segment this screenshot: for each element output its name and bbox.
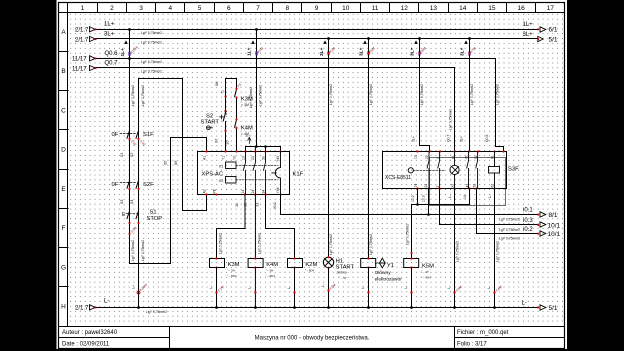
terminal dot [367, 291, 369, 293]
solenoid valve coil Y1 [361, 259, 376, 268]
svg-text:5/1: 5/1 [549, 37, 558, 44]
S2F linkage dashed [120, 182, 136, 184]
XCS actuator key symbol [408, 168, 413, 173]
wire 3L+ drop to H1 lamp [328, 39, 330, 257]
svg-text:3L+: 3L+ [523, 32, 534, 38]
svg-text:S1F: S1F [143, 132, 154, 138]
terminal dot [453, 291, 455, 293]
XCS coil element 61-62 [494, 152, 496, 189]
terminal dot [410, 291, 412, 293]
svg-text:A: A [61, 29, 66, 36]
svg-text:LgY 0,75mm2: LgY 0,75mm2 [405, 224, 409, 245]
svg-text:2: 2 [110, 5, 114, 12]
svg-text:⌜– 3D4: ⌜– 3D4 [421, 276, 431, 280]
wire rail 3L+ [94, 38, 537, 40]
auxiliary contact K4M [241, 126, 253, 136]
svg-text:4: 4 [168, 5, 172, 12]
wire rail L- bottom [94, 307, 537, 309]
folio reference arrow 11/13 to rail Q0.7 [72, 65, 97, 72]
svg-text:2/1.7: 2/1.7 [75, 37, 89, 43]
svg-text:H: H [61, 304, 66, 311]
svg-text:14: 14 [414, 184, 418, 188]
junction on L- [453, 306, 456, 309]
svg-text:L-: L- [488, 195, 492, 198]
K4M leg terminal dots [235, 118, 237, 120]
safety switch S3F gray enclosure [430, 158, 506, 206]
svg-text:LgY 0,75mm2: LgY 0,75mm2 [249, 87, 253, 108]
svg-text:14: 14 [241, 190, 245, 194]
svg-text:Folio : 3/17: Folio : 3/17 [457, 341, 487, 347]
svg-text:1L+: 1L+ [523, 22, 534, 28]
Y1 valve symbol [380, 258, 386, 268]
svg-text:LgY 0,75mm2: LgY 0,75mm2 [141, 240, 145, 261]
svg-text:i0.1: i0.1 [523, 208, 533, 214]
wire K3M coil to L- [216, 268, 218, 308]
svg-text:⌽ 3M: ⌽ 3M [241, 103, 249, 107]
folio reference arrow 2/1.7 to rail L- [75, 305, 97, 312]
svg-text:62: 62 [491, 184, 495, 188]
auxiliary contact K3M [241, 97, 253, 107]
junction on L- [254, 306, 257, 309]
terminal dot [215, 291, 217, 293]
XCS bottom pin dots [416, 187, 495, 189]
terminal blue markers [128, 51, 470, 56]
svg-text:02: 02 [129, 152, 134, 157]
folio reference arrow 11/13 to rail Q0.6 [72, 56, 97, 63]
junction on 3L+ [418, 37, 421, 40]
potential arrow 1L+ near bus [245, 134, 251, 144]
S2 actuator link dashed [220, 115, 224, 119]
wire S2 leg [223, 79, 225, 152]
svg-text:61: 61 [491, 155, 495, 159]
svg-text:A1: A1 [203, 156, 207, 160]
contactor coil K4M [248, 259, 263, 268]
wire V1 from 1L+ down left branch [130, 30, 207, 264]
Y1 note Glowny elektrozawor [375, 270, 403, 282]
svg-text:LgY 0,75mm2: LgY 0,75mm2 [141, 85, 145, 106]
svg-text:07: 07 [213, 138, 218, 143]
folio reference arrow 2/1.7 to rail 3L+ [75, 36, 97, 43]
terminal dot [293, 291, 295, 293]
fuse-switch S1F pole 1 [127, 129, 130, 141]
S2F terminal dots [128, 188, 130, 190]
pushbutton S2 START actuator [201, 114, 220, 130]
XCS pin labels top rotated [414, 155, 495, 159]
terminal dot [327, 289, 329, 291]
title block [59, 327, 565, 349]
svg-text:09: 09 [223, 110, 228, 115]
terminal dot V3 [255, 52, 257, 54]
svg-text:S1: S1 [150, 210, 157, 216]
svg-text:2/1.7: 2/1.7 [75, 28, 89, 34]
svg-text:⌜– 3H: ⌜– 3H [227, 269, 235, 273]
folio reference arrow 10/1 lower [537, 231, 560, 238]
relay element K2 [226, 177, 237, 184]
XPS internal contact 23-24 [253, 152, 255, 195]
svg-text:8/1: 8/1 [549, 212, 558, 219]
svg-text:G: G [61, 264, 66, 271]
wire 3L+ drop to XCS pin 21 [420, 39, 430, 152]
wire 3L+ drop to XCS pin 41 [469, 39, 471, 152]
K4M coil terminal dots [254, 257, 256, 259]
XPS pin labels top rotated [203, 156, 281, 162]
svg-text:17: 17 [547, 5, 555, 12]
fuse-switch S2F pole 1 [127, 179, 130, 191]
svg-text:Główny: Główny [375, 270, 392, 276]
XCS contact 21-22 [438, 152, 440, 189]
svg-text:zielona: zielona [336, 270, 347, 274]
Y1 valve link dashed [375, 262, 379, 264]
svg-text:D: D [61, 147, 66, 154]
junction on i0.1 [427, 213, 430, 216]
svg-text:LgY 0,75mm2: LgY 0,75mm2 [449, 109, 453, 130]
junction on 1L+ at V3 [255, 28, 258, 31]
svg-text:⌜– 8D3: ⌜– 8D3 [227, 274, 237, 278]
folio reference arrow 5/1 from rail L- [537, 305, 558, 312]
svg-text:10.3: 10.3 [422, 195, 426, 202]
terminal dot [468, 52, 470, 54]
folio reference arrow 10/1 upper [537, 222, 560, 230]
svg-text:11/17: 11/17 [72, 66, 87, 72]
terminal dot on H1 drop [327, 52, 329, 54]
svg-text:Auteur : pawel32640: Auteur : pawel32640 [62, 330, 118, 336]
svg-text:x2: x2 [451, 184, 455, 188]
svg-text:F: F [62, 225, 66, 232]
svg-text:6: 6 [227, 5, 231, 12]
terminal dot on Y1 drop [367, 52, 369, 54]
svg-text:START: START [201, 120, 220, 126]
junction dots on bus [255, 145, 258, 148]
K3M coil terminal dots [215, 257, 217, 259]
XCS contact 41-42 [467, 152, 469, 189]
svg-text:Date : 02/09/2011: Date : 02/09/2011 [62, 341, 110, 347]
svg-text:5/1: 5/1 [549, 305, 558, 312]
svg-text:S2F: S2F [143, 182, 154, 188]
dashed link K1 to contacts [236, 164, 278, 166]
svg-text:LgY 0,75mm2: LgY 0,75mm2 [329, 84, 333, 105]
svg-text:STOP: STOP [147, 216, 163, 222]
svg-text:LgY 0,75mm2: LgY 0,75mm2 [259, 85, 263, 106]
svg-text:3: 3 [139, 5, 143, 12]
junction on 3L+ [468, 37, 471, 40]
svg-text:K2M: K2M [305, 262, 317, 268]
svg-text:6/1: 6/1 [549, 27, 558, 34]
terminal dot V1 lower [128, 233, 130, 235]
svg-text:2: 2 [436, 186, 440, 188]
K5M cross references [421, 270, 431, 280]
terminal ring on V2 bottom [137, 291, 140, 294]
wire K5M to L- [411, 268, 413, 308]
svg-text:8: 8 [285, 5, 289, 12]
svg-text:3L+: 3L+ [358, 47, 364, 56]
svg-text:10: 10 [342, 5, 350, 12]
dashed link K2 to contacts [236, 179, 278, 181]
svg-text:⌜– 3H: ⌜– 3H [266, 269, 274, 273]
wire 3L+ drop to Y1 valve [368, 39, 370, 258]
svg-text:LgY 0,75mm2: LgY 0,75mm2 [141, 60, 162, 64]
svg-text:K2: K2 [219, 179, 223, 183]
svg-text:Q0.7: Q0.7 [105, 61, 119, 67]
XPS pin labels bottom rotated [203, 187, 281, 193]
H1 cross reference [339, 276, 347, 280]
folio reference arrow 2/1.7 to rail 1L+ [75, 27, 97, 34]
page border frame [59, 3, 565, 349]
XPS top pin dots [205, 150, 281, 152]
svg-text:Y1: Y1 [221, 156, 225, 160]
H1 note zielona [336, 270, 347, 274]
svg-text:14: 14 [463, 195, 467, 199]
svg-text:3L+: 3L+ [460, 47, 466, 56]
svg-text:23: 23 [251, 156, 255, 160]
grid dots [69, 13, 565, 326]
svg-text:3L+: 3L+ [459, 136, 463, 142]
svg-text:0F: 0F [112, 182, 119, 188]
K3M cross references [227, 269, 237, 279]
junction on L- [410, 306, 413, 309]
S1 terminal dots [128, 222, 130, 224]
svg-text:⌜– 8D4: ⌜– 8D4 [305, 269, 315, 273]
junction on 3L+ at H1 drop [327, 37, 330, 40]
svg-text:i0.1: i0.1 [272, 201, 277, 208]
K2M cross reference [305, 269, 315, 273]
svg-text:12: 12 [243, 202, 248, 207]
wire start branch U top [226, 78, 237, 80]
svg-text:11/17: 11/17 [72, 57, 87, 63]
wire rail Q0.6 [94, 59, 504, 152]
svg-text:03: 03 [119, 199, 124, 204]
svg-text:Q0.6: Q0.6 [105, 51, 119, 57]
wire rail Q0.7 [94, 68, 455, 152]
svg-text:14: 14 [459, 5, 467, 12]
svg-text:34: 34 [262, 190, 266, 194]
svg-text:3L+: 3L+ [409, 47, 415, 56]
terminal dot on K5M feed [410, 252, 412, 254]
svg-text:⌽ 4M: ⌽ 4M [241, 132, 249, 136]
svg-text:LgY 0,75mm2: LgY 0,75mm2 [131, 240, 135, 261]
folio reference arrow 8/1 [537, 212, 558, 219]
wire XPS 34 to K2M coil dogleg [266, 195, 295, 259]
wire XCS 62 to L- rail [494, 189, 496, 308]
wire V2 second pole branch to XPS A2 [139, 79, 207, 308]
svg-text:LgY 0,75mm2: LgY 0,75mm2 [499, 217, 520, 221]
XCS lamp [450, 152, 459, 189]
wire H1 to L- [328, 268, 330, 308]
svg-text:7: 7 [256, 5, 260, 12]
relay element K1 [226, 162, 237, 169]
svg-text:LgY 0,75mm2: LgY 0,75mm2 [257, 233, 261, 254]
svg-text:L+: L+ [131, 284, 135, 289]
XPS internal contact 33-34 [264, 152, 266, 195]
svg-text:⌜– 4T: ⌜– 4T [421, 270, 429, 274]
svg-text:10/1: 10/1 [548, 231, 561, 238]
svg-text:K5M: K5M [422, 263, 434, 269]
svg-text:11: 11 [372, 5, 379, 12]
svg-text:K4M: K4M [266, 262, 278, 268]
wire V3 from 1L+ to XPS contact bus [246, 30, 281, 152]
XCS pin labels bottom rotated [414, 184, 495, 188]
XCS contact 13-14 [427, 152, 429, 189]
svg-text:5: 5 [198, 5, 202, 12]
folio reference arrow 5/1 from rail 3L+ [537, 36, 558, 43]
svg-text:LgY 0,75mm2: LgY 0,75mm2 [470, 84, 474, 105]
svg-text:06: 06 [173, 160, 178, 165]
svg-text:52: 52 [472, 184, 476, 188]
svg-text:LgY 0,75mm2: LgY 0,75mm2 [219, 233, 223, 254]
contactor coil K2M [288, 259, 303, 268]
S2 leg terminal dots [224, 95, 226, 97]
potential up-arrows on feeder drops [124, 40, 468, 44]
XCS top pin dots [416, 150, 504, 152]
svg-text:22: 22 [424, 184, 428, 188]
wire i0.1 from XPS Y44 to folio 8/1 [281, 195, 538, 215]
svg-text:Fichier : m_000.qet: Fichier : m_000.qet [457, 330, 509, 336]
svg-text:13: 13 [414, 155, 418, 159]
contactor coil K5M [404, 259, 419, 268]
svg-text:B: B [61, 68, 65, 75]
svg-text:L-: L- [522, 301, 527, 307]
terminal dot [418, 52, 420, 54]
svg-text:1L+: 1L+ [104, 22, 115, 28]
junction on L- [327, 306, 330, 309]
K5M coil terminal dots [410, 257, 412, 259]
svg-text:LgY 0,75mm2: LgY 0,75mm2 [131, 85, 135, 106]
svg-text:1L+: 1L+ [247, 47, 253, 56]
svg-text:3L+: 3L+ [319, 47, 325, 56]
K1F coil element in Y43-Y44 branch [272, 152, 281, 195]
safety relay XPS-AC box [198, 152, 290, 195]
svg-text:Y1: Y1 [387, 263, 394, 269]
svg-text:04: 04 [129, 199, 134, 204]
wire K4M coil to L- [254, 268, 256, 308]
svg-text:10/1: 10/1 [548, 222, 561, 229]
svg-text:XCS-E8511: XCS-E8511 [385, 175, 411, 181]
svg-text:05: 05 [163, 160, 168, 165]
svg-text:XPS-AC: XPS-AC [202, 172, 224, 178]
svg-text:K1F: K1F [293, 172, 304, 178]
fuse-switch S1F pole 2 [136, 129, 139, 141]
junction on Q0.6 at V1 [128, 57, 131, 60]
K2M coil terminal dots [293, 257, 295, 259]
folio reference arrow 6/1 from rail 1L+ [537, 27, 558, 34]
svg-text:1L+: 1L+ [120, 48, 126, 57]
junction on L- [367, 306, 370, 309]
XPS bottom pin dots [205, 193, 281, 195]
XPS internal contact 13-14 [243, 152, 245, 195]
svg-text:3L+: 3L+ [104, 31, 115, 37]
XCS contact 51-52 [476, 152, 478, 189]
svg-text:LgY 0,75mm2: LgY 0,75mm2 [420, 84, 424, 105]
S1 designator [147, 210, 163, 222]
svg-text:Y43: Y43 [276, 156, 280, 162]
indicator lamp H1 START [323, 257, 333, 267]
junction at K5M feed [416, 203, 419, 206]
emergency stop S1 contact 1 [127, 209, 130, 221]
svg-text:LgY 0,75mm2: LgY 0,75mm2 [141, 70, 162, 74]
wire K3M/K4M leg [235, 79, 237, 152]
svg-text:LgY 0,75mm2: LgY 0,75mm2 [146, 310, 167, 314]
svg-text:12: 12 [401, 5, 409, 12]
emergency stop S1 contact 2 [136, 209, 139, 221]
wire XCS pins to K5M coil [412, 189, 470, 259]
svg-text:PE: PE [213, 188, 217, 193]
svg-text:33: 33 [262, 156, 266, 160]
svg-text:E: E [122, 212, 126, 218]
terminal dot V1 above Q0.6 [128, 53, 130, 55]
K4M cross references [266, 269, 276, 279]
K3M leg terminal dots [235, 88, 237, 90]
svg-text:LgY 0,75mm2: LgY 0,75mm2 [369, 234, 373, 255]
wire XCS 22 junction to i0.1 [428, 189, 430, 215]
junction on L- [493, 306, 496, 309]
svg-text:LgY 0,75mm2: LgY 0,75mm2 [141, 41, 162, 45]
svg-text:16: 16 [517, 5, 525, 12]
junction on L- [215, 306, 218, 309]
junction on 3L+ at Y1 drop [367, 37, 370, 40]
svg-text:10.2: 10.2 [411, 195, 415, 202]
wire XPS 24 to K4M coil [254, 195, 256, 259]
svg-text:S3F: S3F [508, 167, 519, 173]
svg-text:1: 1 [81, 5, 85, 12]
H1 lamp terminal dots [327, 256, 329, 258]
wire K2M coil to L- [294, 268, 296, 308]
junction on L- [293, 306, 296, 309]
svg-text:Maszyna nr 000 - obwody bezpie: Maszyna nr 000 - obwody bezpieczeństwa. [255, 336, 370, 342]
svg-text:LgY 0,75mm2: LgY 0,75mm2 [496, 84, 500, 105]
wire Y1 to L- [368, 268, 370, 308]
svg-text:13: 13 [255, 202, 260, 207]
svg-text:LgY 0,75mm2: LgY 0,75mm2 [329, 234, 333, 255]
svg-text:10: 10 [225, 140, 230, 145]
svg-text:L-: L- [104, 298, 109, 304]
svg-text:i0.3: i0.3 [523, 218, 533, 224]
limit switch XCS-E8511 box [383, 152, 507, 189]
svg-text:08: 08 [214, 81, 219, 86]
H1 designator [336, 258, 355, 270]
ruler column separators and numbers [59, 3, 536, 287]
XCS coil box [489, 167, 500, 174]
svg-text:A2: A2 [203, 189, 207, 193]
wire rail 1L+ [94, 29, 537, 31]
junction on L- at V2 [137, 306, 140, 309]
svg-text:LgY 0,75mm2: LgY 0,75mm2 [499, 228, 520, 232]
svg-text:2/1.7: 2/1.7 [75, 306, 89, 312]
terminal dot [493, 291, 495, 293]
svg-text:⌜– 8D4: ⌜– 8D4 [266, 274, 276, 278]
contactor coil K3M [210, 259, 225, 268]
svg-text:LgY 0,75mm2: LgY 0,75mm2 [369, 84, 373, 105]
svg-text:START: START [336, 264, 355, 270]
wire XPS 14 to K3M coil dogleg [217, 195, 246, 259]
svg-text:elektrozawór: elektrozawór [375, 277, 403, 283]
junction on 1L+ at V1 [128, 28, 131, 31]
Y1 coil terminal dots [367, 257, 369, 259]
svg-text:L-: L- [448, 195, 452, 198]
svg-text:K4M: K4M [241, 126, 253, 132]
svg-text:i0.2: i0.2 [523, 227, 533, 233]
svg-text:K1: K1 [219, 164, 223, 168]
svg-text:Y44: Y44 [276, 187, 280, 193]
svg-text:LgY 0,75mm2: LgY 0,75mm2 [496, 241, 500, 262]
svg-text:0F: 0F [112, 132, 119, 138]
S1F terminal dots [128, 138, 130, 140]
svg-text:⌜– 3T: ⌜– 3T [339, 276, 347, 280]
wire i0.2 from XCS pin 52 to folio 10/1 [477, 189, 538, 234]
svg-text:K3M: K3M [228, 262, 240, 268]
svg-text:Q0.6: Q0.6 [485, 135, 489, 142]
svg-text:Y2: Y2 [233, 156, 237, 160]
fuse-switch S2F pole 2 [136, 179, 139, 191]
terminal dot [254, 291, 256, 293]
